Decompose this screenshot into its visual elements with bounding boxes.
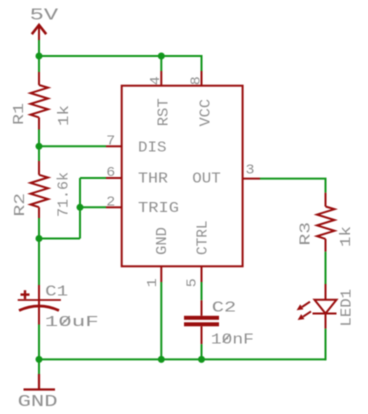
svg-text:GND: GND	[154, 227, 171, 255]
op-amp U1 555 timer body	[122, 86, 243, 267]
svg-text:6: 6	[106, 166, 115, 181]
svg-text:VCC: VCC	[198, 99, 215, 127]
svg-text:3: 3	[246, 164, 255, 179]
pin 7 DIS stub	[106, 145, 122, 147]
wire C1 to ground rail	[38, 325, 40, 375]
wire R2 to C1	[38, 218, 40, 285]
svg-text:1: 1	[146, 278, 161, 287]
resistor R2	[31, 161, 49, 218]
svg-text:10uF: 10uF	[45, 314, 99, 331]
capacitor C2	[184, 300, 219, 344]
svg-text:R1: R1	[11, 103, 28, 125]
svg-text:5: 5	[185, 278, 200, 287]
wire DIS	[39, 145, 106, 147]
svg-text:7: 7	[106, 135, 115, 150]
svg-text:5V: 5V	[30, 6, 59, 25]
wire bottom rail	[39, 358, 326, 360]
pin 2 TRIG stub	[106, 206, 122, 208]
diode LED1	[313, 284, 337, 329]
svg-text:R3: R3	[298, 222, 315, 246]
svg-text:4: 4	[149, 76, 164, 85]
junction bottom rail left	[36, 356, 43, 363]
junction bottom rail pin 1	[158, 356, 165, 363]
wire pin 1 to bottom rail	[160, 282, 162, 359]
pin 5 CTRL stub	[201, 266, 203, 282]
LED1 emission arrows	[297, 302, 311, 320]
svg-text:RST: RST	[156, 98, 173, 126]
svg-text:C2: C2	[212, 300, 237, 317]
svg-text:GND: GND	[18, 392, 58, 411]
pin 4 RST stub	[160, 71, 162, 86]
power flag 5V arrow	[32, 25, 46, 47]
junction bottom rail C2	[198, 356, 205, 363]
svg-text:THR: THR	[138, 171, 168, 188]
pin 3 OUT stub	[243, 178, 260, 180]
resistor R1	[31, 72, 49, 130]
capacitor C1	[18, 285, 61, 325]
junction R2 bottom	[36, 235, 43, 242]
svg-text:1k: 1k	[56, 105, 73, 126]
svg-text:R2: R2	[12, 193, 29, 217]
ground symbol GND	[24, 374, 56, 390]
wire LED1 to bottom rail	[325, 329, 327, 361]
wire THR vertical branch	[79, 178, 81, 239]
svg-text:1k: 1k	[338, 226, 355, 247]
svg-text:LED1: LED1	[339, 289, 356, 327]
svg-text:8: 8	[190, 76, 205, 85]
svg-text:71.6k: 71.6k	[56, 172, 73, 217]
svg-text:10nF: 10nF	[211, 331, 254, 348]
wire RST drop	[160, 56, 162, 71]
junction top rail at pin 4	[158, 53, 165, 60]
junction R1/R2/DIS	[36, 143, 43, 150]
wire 5V stem	[38, 40, 40, 72]
wire pin 5 to C2	[201, 282, 203, 300]
resistor R3	[317, 193, 335, 252]
wire R1 to R2	[38, 130, 40, 162]
svg-text:OUT: OUT	[192, 171, 221, 188]
junction TRIG branch	[77, 204, 84, 211]
pin 1 GND stub	[160, 266, 162, 282]
wire THR	[80, 177, 106, 179]
wire OUT to R3	[260, 179, 326, 193]
wire C2 to bottom rail	[201, 344, 203, 359]
svg-text:2: 2	[106, 196, 115, 211]
wire TRIG	[80, 206, 106, 208]
wire top rail to VCC	[39, 56, 202, 71]
wire R2 bottom to THR/TRIG branch	[39, 238, 80, 240]
junction top rail at 5V	[36, 53, 43, 60]
svg-text:TRIG: TRIG	[138, 200, 179, 217]
svg-text:C1: C1	[45, 283, 68, 300]
pin 8 VCC stub	[201, 71, 203, 86]
pin 6 THR stub	[106, 177, 122, 179]
svg-text:DIS: DIS	[138, 139, 167, 156]
wire R3 to LED1	[325, 252, 327, 284]
svg-text:CTRL: CTRL	[195, 221, 212, 256]
